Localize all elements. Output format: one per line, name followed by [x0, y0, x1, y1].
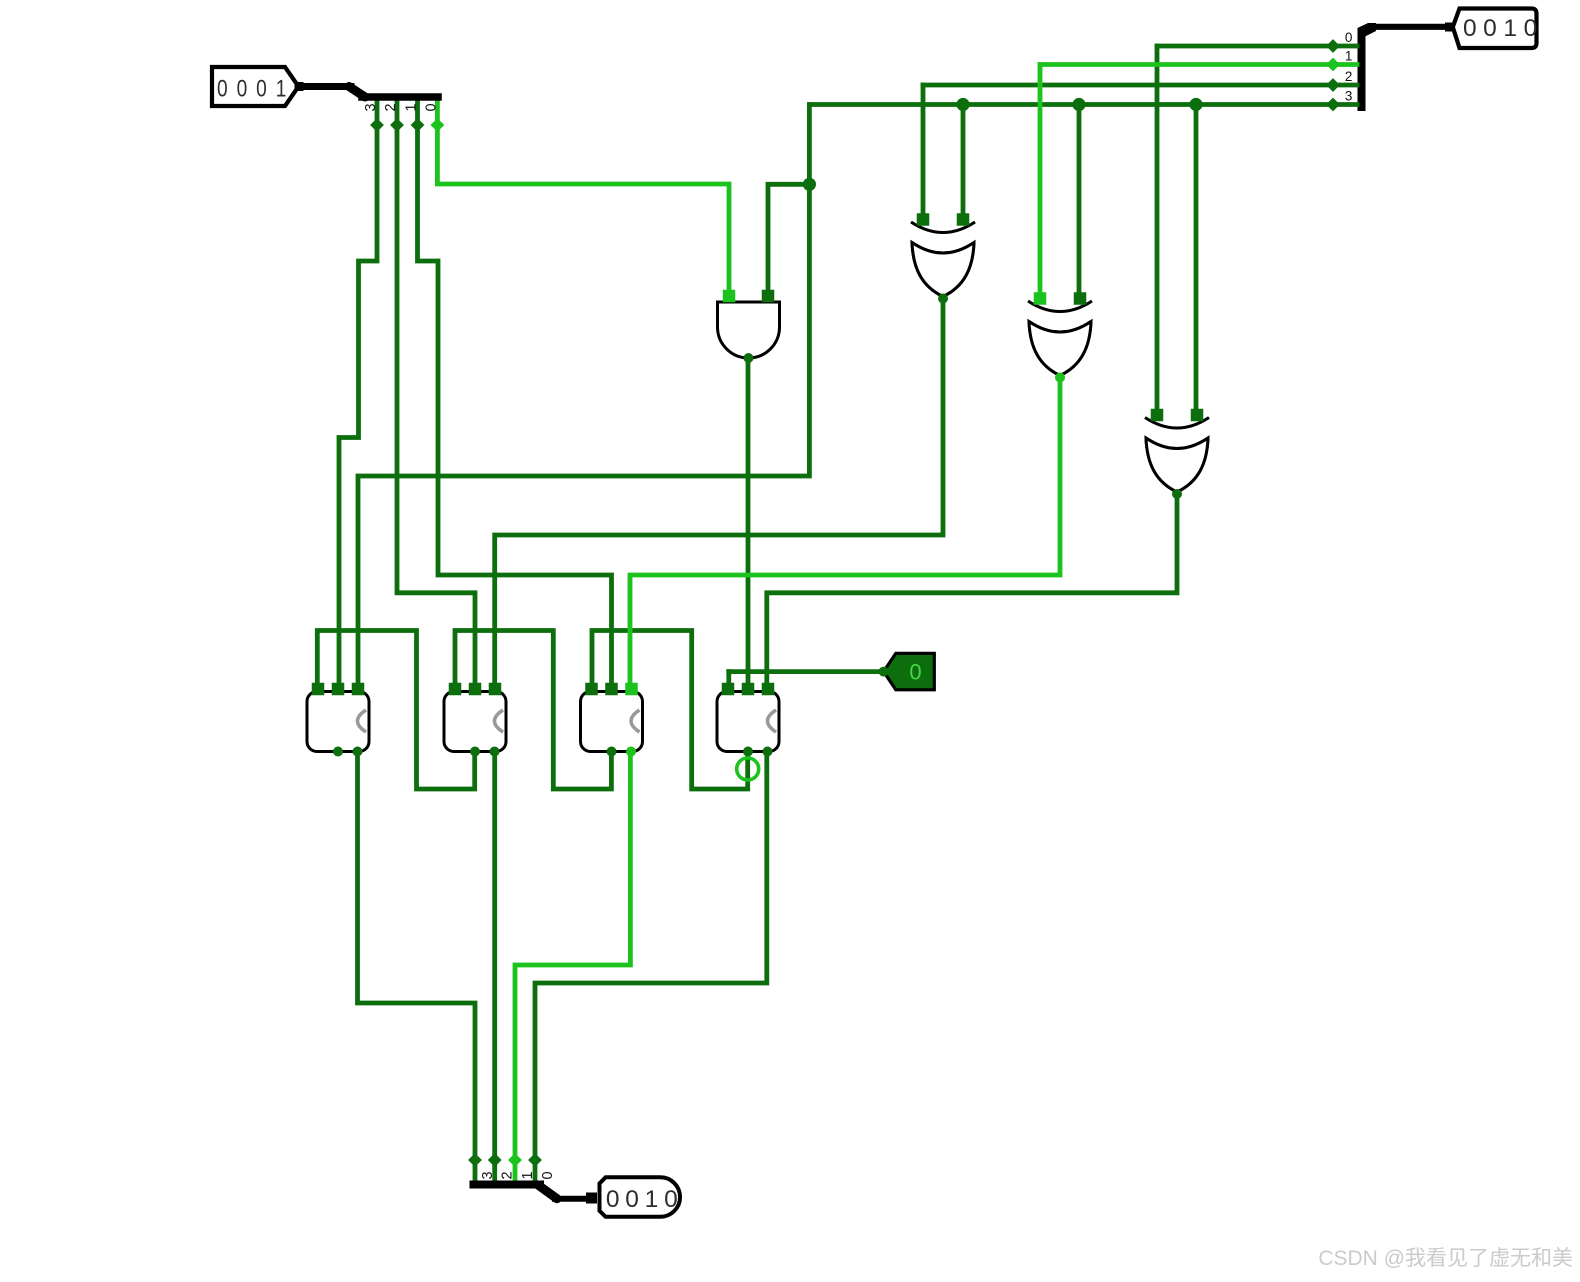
svg-text:0: 0: [237, 74, 248, 102]
svg-text:0: 0: [664, 1186, 678, 1213]
svg-text:0: 0: [540, 1171, 556, 1179]
svg-text:0: 0: [606, 1186, 620, 1213]
svg-text:CSDN @我看见了虚无和美: CSDN @我看见了虚无和美: [1318, 1247, 1573, 1270]
svg-text:0: 0: [1524, 15, 1538, 42]
svg-text:0: 0: [1463, 15, 1477, 42]
svg-text:1: 1: [403, 103, 419, 111]
svg-text:2: 2: [500, 1171, 516, 1179]
svg-text:0: 0: [1345, 30, 1353, 45]
svg-text:2: 2: [383, 103, 399, 111]
svg-text:1: 1: [645, 1186, 659, 1213]
svg-text:3: 3: [1345, 89, 1353, 104]
svg-text:1: 1: [1345, 49, 1353, 64]
svg-text:0: 0: [256, 74, 267, 102]
svg-text:0: 0: [909, 660, 921, 685]
svg-text:1: 1: [276, 74, 287, 102]
svg-text:0: 0: [217, 74, 228, 102]
svg-text:3: 3: [480, 1171, 496, 1179]
svg-text:2: 2: [1345, 69, 1353, 84]
svg-text:0: 0: [625, 1186, 639, 1213]
svg-text:1: 1: [520, 1171, 536, 1179]
svg-text:0: 0: [423, 103, 439, 111]
svg-text:3: 3: [363, 103, 379, 111]
svg-text:1: 1: [1503, 15, 1517, 42]
svg-text:0: 0: [1483, 15, 1497, 42]
